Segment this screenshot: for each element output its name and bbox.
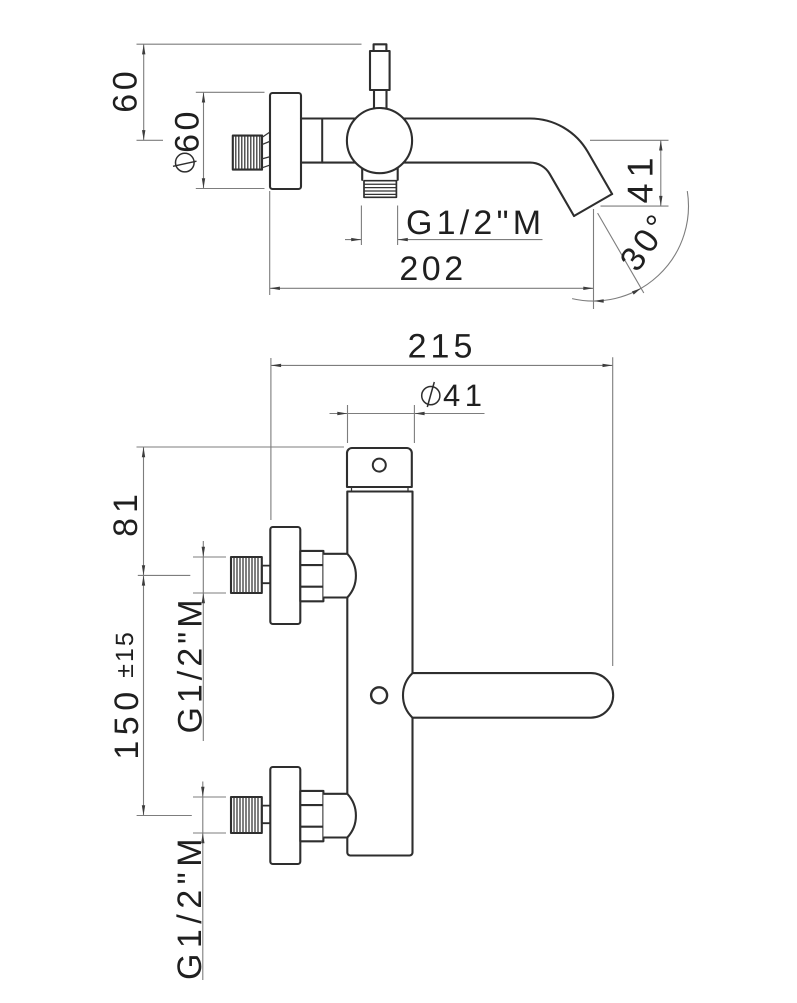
cap circle — [373, 459, 386, 472]
dim phi60 line — [203, 92, 205, 188]
dim 81 arrows — [142, 447, 145, 575]
dim 81 extension top — [137, 446, 345, 448]
connector piece — [262, 566, 271, 584]
svg-text:150: 150 — [108, 686, 146, 759]
inlet transition cone — [262, 132, 271, 168]
dim G1/2"M upper ticks — [193, 557, 226, 593]
knob body — [370, 51, 390, 90]
eccentric flange — [270, 527, 300, 624]
dim 215 line — [271, 364, 613, 366]
valve body tube + spout inner edge — [301, 163, 574, 216]
dim G1/2"M upper leader — [202, 541, 204, 741]
lower connection — [231, 767, 356, 864]
supply thread — [231, 557, 262, 593]
upper connection — [231, 527, 356, 624]
dim 60 extension line top — [137, 43, 362, 45]
outlet neck below ball — [362, 166, 398, 180]
svg-text:202: 202 — [399, 250, 466, 288]
dim phi41 line — [330, 413, 485, 415]
inlet thread (top view) — [233, 136, 262, 170]
dim G1/2"M lower ticks — [193, 797, 226, 833]
dim phi60 extension lines — [196, 92, 265, 188]
hex nut — [300, 551, 323, 601]
knob cap — [374, 44, 387, 51]
dim 202 arrows — [270, 287, 594, 290]
dim 150 line — [143, 575, 145, 815]
dim G1/2"M (top) line — [345, 239, 543, 241]
svg-text:60: 60 — [107, 68, 145, 113]
dim G1/2"M (top) extension lines — [361, 206, 397, 246]
dim 41 arrows — [659, 140, 662, 206]
spout end face — [574, 194, 612, 216]
dim phi41 extension lines — [348, 405, 415, 443]
dim 81/150 shared tick — [138, 574, 191, 576]
svg-text:41: 41 — [620, 151, 661, 203]
dim 60 line — [143, 44, 145, 140]
dim 215 arrows — [271, 364, 613, 367]
dim 150 bottom tick — [137, 815, 192, 817]
svg-text:215: 215 — [408, 328, 477, 366]
body screw circle — [371, 687, 387, 703]
valve body tube + spout outer edge — [301, 119, 612, 195]
dim 41 line — [660, 140, 662, 206]
dim phi60 symbol — [176, 153, 195, 172]
dim G1/2"M lower arrows — [201, 787, 204, 843]
svg-text:81: 81 — [107, 489, 145, 537]
dim phi41 arrows — [337, 412, 424, 415]
svg-text:60: 60 — [169, 108, 207, 153]
svg-text:G1/2"M: G1/2"M — [172, 595, 210, 733]
svg-text:G1/2"M: G1/2"M — [171, 833, 209, 980]
wall flange (top view) — [270, 93, 301, 189]
outlet thread — [364, 181, 396, 198]
angle 30 arc arrows — [594, 288, 642, 302]
cap joint band — [352, 487, 409, 492]
angle 30 slant line — [598, 213, 644, 293]
dim G1/2"M (top) arrows — [351, 238, 408, 241]
svg-text:41: 41 — [443, 378, 486, 413]
dim 81 line — [143, 447, 145, 575]
dim 60 extension tick bottom — [137, 139, 164, 141]
dim 202 extension line left — [269, 191, 271, 295]
dim G1/2"M lower leader — [202, 782, 204, 981]
svg-text:G1/2"M: G1/2"M — [406, 204, 545, 242]
tube joint line — [321, 119, 323, 163]
dim 41 extension lines — [590, 140, 669, 206]
dim G1/2"M upper arrows — [202, 547, 205, 603]
dim phi60 arrows — [202, 92, 205, 188]
dim 215 extension lines — [271, 357, 613, 666]
main body — [347, 492, 412, 856]
dim 150 arrows — [142, 575, 145, 815]
angle 30 reference vertical line — [593, 209, 595, 309]
dim 60 arrows — [142, 44, 145, 140]
svg-text:±15: ±15 — [111, 630, 139, 678]
cartridge stem — [374, 90, 387, 112]
top cap — [347, 448, 412, 487]
angle 30 arc — [572, 191, 688, 301]
dim 202 line — [270, 287, 594, 289]
ball valve body — [347, 108, 412, 173]
dim phi41 symbol — [422, 387, 440, 405]
dome to body — [323, 554, 356, 598]
handle — [403, 673, 613, 718]
